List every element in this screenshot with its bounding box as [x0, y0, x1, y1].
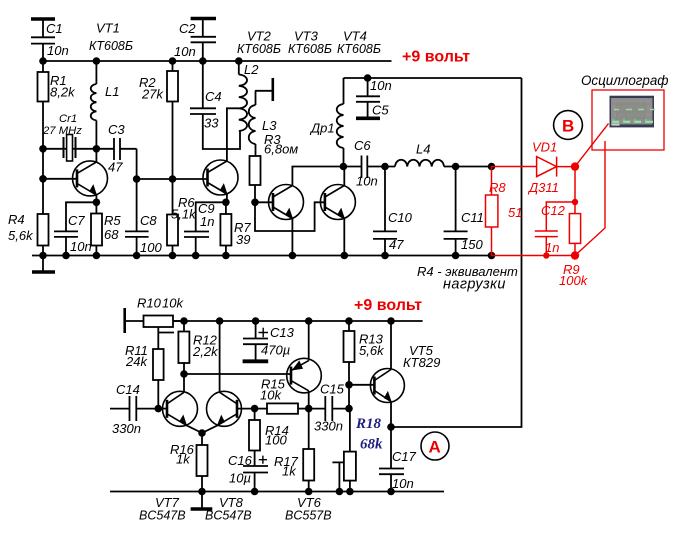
- svg-text:5,6k: 5,6k: [8, 228, 34, 243]
- crystal Cr1: [64, 135, 76, 162]
- transistor VT2: [203, 160, 238, 195]
- wire VT6 emitter up: [308, 321, 310, 361]
- svg-text:1k: 1k: [282, 464, 297, 479]
- junction dots bottom ground rail: [198, 488, 206, 496]
- wire R1 node to base: [42, 149, 44, 214]
- wire red output node to VD1: [492, 166, 537, 168]
- svg-text:L4: L4: [416, 142, 430, 157]
- inductor L3: [249, 91, 256, 156]
- wire crystal net: [43, 148, 96, 150]
- resistor R10: [125, 316, 184, 328]
- wire right side feed from VT5 emitter: [391, 78, 522, 427]
- svg-text:R18: R18: [355, 416, 382, 432]
- svg-text:R8: R8: [489, 180, 506, 195]
- svg-text:C16: C16: [228, 453, 253, 468]
- node A circle: [421, 432, 449, 460]
- resistor R9: [569, 202, 580, 256]
- wire R10 wiper: [158, 327, 174, 349]
- transistor VT8: [207, 391, 242, 426]
- svg-text:VT1: VT1: [96, 21, 120, 36]
- svg-text:+9 вольт: +9 вольт: [354, 297, 422, 314]
- svg-text:C13: C13: [270, 325, 295, 340]
- diode VD1: [537, 157, 575, 177]
- antenna terminal: [255, 78, 273, 101]
- wire L4 to R8 node: [456, 166, 492, 168]
- node B circle: [554, 111, 583, 140]
- capacitor C9: [184, 202, 226, 255]
- resistor R12: [178, 321, 189, 374]
- junction dots base net VT2: [133, 175, 141, 183]
- svg-text:8,2k: 8,2k: [50, 85, 76, 100]
- svg-text:10n: 10n: [392, 476, 414, 491]
- svg-text:Осциллограф: Осциллограф: [581, 73, 668, 88]
- svg-text:C1: C1: [46, 21, 63, 36]
- junction dots audio nodes: [155, 405, 163, 413]
- resistor R2: [167, 61, 178, 179]
- svg-text:10n: 10n: [70, 239, 92, 254]
- input terminal bar: [123, 308, 126, 333]
- oscilloscope box: [592, 90, 664, 150]
- svg-text:51: 51: [508, 205, 522, 220]
- svg-text:Д311: Д311: [527, 180, 559, 195]
- capacitor C16: [243, 456, 268, 492]
- transistor VT5: [370, 369, 404, 403]
- wire VT5 collector: [390, 321, 392, 370]
- svg-text:150: 150: [461, 237, 483, 252]
- inductor L4: [385, 160, 456, 167]
- transistor VT4: [320, 185, 355, 220]
- svg-text:L2: L2: [244, 62, 259, 77]
- svg-text:2,2k: 2,2k: [192, 344, 219, 359]
- wire VT2 base net: [137, 178, 208, 180]
- wire VT3 emitter: [291, 219, 293, 256]
- junction dots emitter nodes: [93, 199, 101, 207]
- transistor VT7: [163, 391, 198, 426]
- svg-text:C3: C3: [108, 122, 125, 137]
- inductor L1: [91, 61, 97, 149]
- resistor R11: [153, 349, 164, 409]
- junction dots output net: [340, 163, 348, 171]
- junction dots ground rail: [39, 252, 47, 260]
- svg-text:A: A: [429, 438, 441, 457]
- svg-text:68k: 68k: [360, 437, 383, 453]
- capacitor C6: [344, 156, 386, 179]
- svg-text:10n: 10n: [356, 174, 378, 189]
- svg-text:B: B: [562, 117, 574, 136]
- capacitor C12: [535, 202, 575, 256]
- wire VT1 emitter: [95, 195, 97, 202]
- svg-text:C2: C2: [179, 21, 196, 36]
- capacitor C10: [373, 167, 397, 256]
- resistor R13: [344, 321, 355, 385]
- svg-text:5,6k: 5,6k: [359, 343, 385, 358]
- resistor R14: [249, 409, 260, 466]
- svg-text:33: 33: [204, 116, 219, 131]
- svg-text:VD1: VD1: [532, 140, 557, 155]
- red junction dots: [571, 162, 579, 170]
- resistor R3: [250, 156, 261, 202]
- svg-text:10k: 10k: [260, 388, 282, 403]
- capacitor C5: [356, 78, 380, 118]
- transistor VT1: [73, 161, 108, 196]
- resistor R15: [255, 403, 309, 413]
- wire VT4 collector: [343, 167, 345, 186]
- ground bar above C1: [31, 17, 55, 21]
- junction dots bottom +9V rail: [180, 317, 188, 325]
- svg-text:1k: 1k: [176, 452, 191, 467]
- svg-text:C6: C6: [354, 138, 371, 153]
- svg-text:10n: 10n: [174, 44, 196, 59]
- oscilloscope screen: [610, 96, 656, 128]
- wire bottom ground rail: [110, 491, 444, 493]
- capacitor C7: [54, 202, 96, 255]
- wire +9V distribution line: [344, 77, 522, 79]
- wire VT2 collector tap to L2: [227, 108, 239, 161]
- wire R13 node to C15 node: [348, 385, 350, 409]
- svg-text:+9 вольт: +9 вольт: [402, 49, 470, 66]
- resistor R5: [91, 202, 102, 255]
- resistor R17: [303, 409, 314, 492]
- svg-text:L1: L1: [105, 84, 119, 99]
- wire VT2 emitter: [226, 194, 228, 202]
- svg-text:BC547B: BC547B: [139, 509, 186, 523]
- wire node B vertical: [574, 167, 576, 202]
- capacitor C8: [125, 231, 149, 255]
- capacitor C15: [309, 396, 349, 421]
- wire ground rail top section: [32, 255, 492, 257]
- svg-text:C10: C10: [388, 210, 413, 225]
- wire VT3-VT4 base link: [255, 202, 325, 231]
- svg-text:10µ: 10µ: [229, 471, 251, 486]
- svg-text:C14: C14: [116, 382, 140, 397]
- capacitor C11: [444, 167, 468, 256]
- svg-text:R4: R4: [8, 212, 25, 227]
- wire VT3 collector: [292, 167, 343, 186]
- ground symbol left: [32, 256, 55, 273]
- wire bottom +9V rail: [173, 320, 423, 322]
- junction dots crystal net: [39, 145, 47, 153]
- svg-text:C15: C15: [320, 382, 345, 397]
- transistor VT3: [269, 185, 304, 220]
- junction dot +9V line: [364, 74, 372, 82]
- svg-text:C11: C11: [461, 210, 484, 225]
- capacitor C14: [110, 396, 158, 421]
- svg-text:24k: 24k: [125, 354, 148, 369]
- svg-text:C7: C7: [68, 213, 85, 228]
- wire VT3 base: [255, 201, 273, 203]
- svg-text:330n: 330n: [314, 419, 343, 434]
- wire VT6 collector down: [308, 391, 310, 409]
- capacitor C3: [96, 138, 136, 160]
- svg-text:100: 100: [265, 433, 287, 448]
- wire VT4 emitter: [343, 219, 345, 256]
- wire emitters VT7 VT8 join: [186, 425, 217, 433]
- svg-text:39: 39: [236, 232, 250, 247]
- resistor R18: [344, 409, 356, 492]
- wire red ground segment: [492, 255, 576, 257]
- wire VT8 base: [237, 408, 255, 410]
- wire VT7 collector: [183, 374, 185, 392]
- svg-text:47: 47: [389, 237, 404, 252]
- ground symbol bottom: [191, 492, 213, 510]
- svg-text:10n: 10n: [47, 43, 69, 58]
- wire R12 to VT6 base: [184, 373, 291, 375]
- resistor R1: [38, 61, 49, 149]
- wire C3 to C8: [136, 149, 138, 232]
- svg-text:C5: C5: [372, 103, 389, 118]
- inductor Dr1: [337, 78, 344, 167]
- svg-text:КТ608Б: КТ608Б: [288, 42, 332, 56]
- svg-text:100: 100: [140, 240, 162, 255]
- svg-text:Др1: Др1: [309, 121, 335, 136]
- svg-text:47: 47: [108, 160, 123, 175]
- capacitor C1: [31, 19, 55, 61]
- wire VT1 base: [43, 178, 77, 180]
- svg-text:10k: 10k: [162, 296, 184, 311]
- transistor VT6: [287, 358, 322, 393]
- svg-text:27k: 27k: [141, 87, 164, 102]
- svg-text:27 MHz: 27 MHz: [42, 125, 82, 137]
- svg-text:BC557B: BC557B: [285, 509, 332, 523]
- svg-text:100k: 100k: [559, 273, 589, 288]
- svg-text:L3: L3: [262, 118, 277, 133]
- wire VT5 emitter: [390, 402, 392, 428]
- capacitor C13: [243, 321, 269, 361]
- junction dot R3 base node: [251, 199, 259, 207]
- wire R18 tap: [332, 462, 344, 491]
- wire scope probe to node B: [575, 124, 609, 167]
- resistor R6: [167, 179, 178, 256]
- svg-text:5,1k: 5,1k: [171, 207, 197, 222]
- inductor L2: [239, 61, 247, 131]
- capacitor C4: [190, 61, 240, 149]
- svg-text:470µ: 470µ: [261, 343, 290, 358]
- resistor R7: [220, 202, 231, 255]
- svg-text:1n: 1n: [545, 240, 559, 255]
- svg-text:10n: 10n: [370, 78, 392, 93]
- svg-text:330n: 330n: [112, 421, 141, 436]
- svg-text:КТ829: КТ829: [403, 355, 440, 370]
- svg-text:КТ608Б: КТ608Б: [89, 39, 133, 53]
- svg-text:BC547B: BC547B: [205, 509, 252, 523]
- svg-text:Cr1: Cr1: [59, 113, 77, 125]
- svg-text:1n: 1n: [200, 214, 214, 229]
- svg-text:C4: C4: [205, 89, 222, 104]
- wire VT1 collector: [95, 149, 97, 162]
- wire VT8 collector: [219, 321, 221, 392]
- wire VT7 base: [158, 408, 167, 410]
- resistor R4: [38, 214, 49, 256]
- wire top +9V rail: [42, 60, 392, 62]
- svg-text:КТ608Б: КТ608Б: [337, 42, 381, 56]
- wire scope ground lead: [575, 141, 605, 256]
- svg-text:R5: R5: [104, 213, 121, 228]
- resistor R16: [197, 433, 208, 492]
- svg-text:C8: C8: [140, 213, 157, 228]
- ground bar above C2: [191, 17, 216, 21]
- svg-text:6,8ом: 6,8ом: [264, 142, 298, 157]
- junction dots top rail: [39, 57, 47, 65]
- resistor R8: [486, 167, 498, 256]
- svg-text:R10: R10: [137, 296, 162, 311]
- capacitor C17: [379, 427, 404, 492]
- svg-text:C17: C17: [392, 449, 417, 464]
- wire VT5 base: [349, 384, 374, 386]
- svg-text:C12: C12: [541, 203, 566, 218]
- svg-text:68: 68: [104, 227, 119, 242]
- capacitor C2: [191, 19, 216, 62]
- svg-text:нагрузки: нагрузки: [443, 277, 506, 293]
- svg-text:КТ608Б: КТ608Б: [237, 42, 281, 56]
